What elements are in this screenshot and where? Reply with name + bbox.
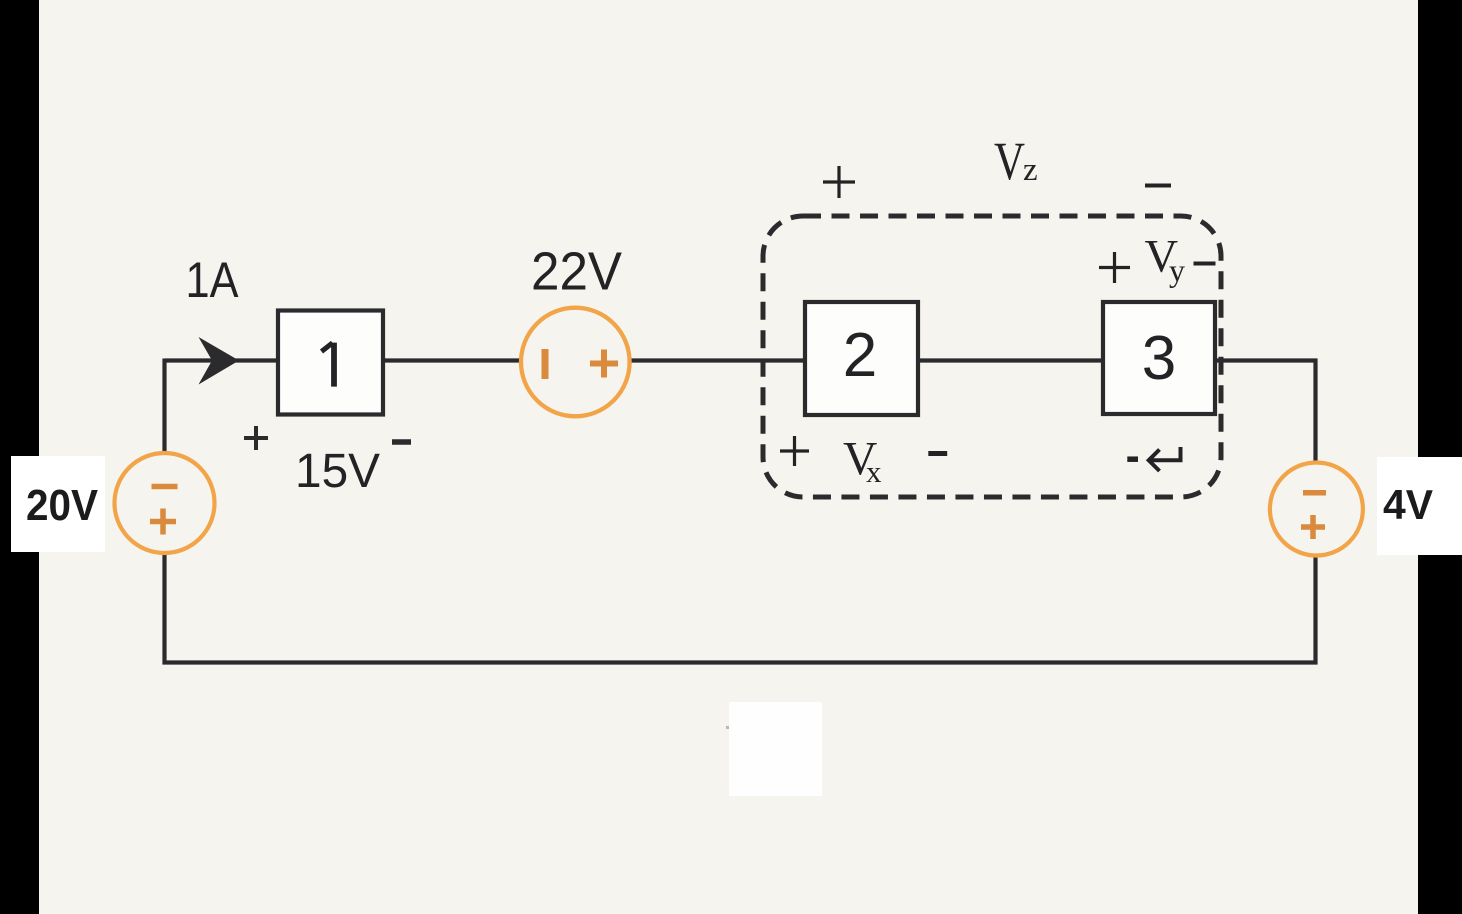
label Vx bbox=[843, 433, 882, 489]
voltage source 4V circle bbox=[1270, 463, 1363, 556]
20V source minus sign bbox=[152, 484, 178, 490]
wire right vertical upper bbox=[1313, 359, 1317, 462]
element box 1 bbox=[278, 311, 383, 415]
voltage source 20V circle bbox=[115, 453, 215, 553]
svg-text:z: z bbox=[1023, 152, 1038, 188]
dashed box Vz outline bbox=[763, 216, 1221, 497]
label Vx plus sign bbox=[780, 436, 809, 466]
wire bottom horizontal bbox=[163, 660, 1318, 664]
svg-text:y: y bbox=[1169, 252, 1185, 288]
label 1 in box bbox=[322, 343, 335, 387]
label minus and return arrow below box 3 bbox=[1127, 447, 1180, 471]
label 15V minus sign bbox=[392, 439, 411, 445]
wire right vertical lower bbox=[1313, 557, 1317, 665]
20V source plus sign bbox=[150, 509, 176, 535]
label Vx minus sign bbox=[928, 451, 947, 456]
svg-text:4V: 4V bbox=[1383, 481, 1433, 528]
wire box1 to 22V source bbox=[383, 358, 521, 362]
wire box2 to box3 bbox=[918, 358, 1103, 362]
voltage source 22V circle bbox=[521, 308, 630, 417]
svg-text:x: x bbox=[866, 454, 882, 489]
svg-text:20V: 20V bbox=[26, 481, 99, 530]
svg-text:V: V bbox=[994, 131, 1025, 191]
white patch bottom center bbox=[729, 702, 822, 796]
label Vy minus sign bbox=[1194, 262, 1216, 266]
label 15V plus sign bbox=[244, 426, 268, 450]
22V source plus sign bbox=[590, 350, 618, 378]
wire left vertical lower bbox=[162, 555, 166, 665]
label Vy bbox=[1145, 232, 1186, 288]
label Vz bbox=[994, 131, 1038, 191]
svg-text:2: 2 bbox=[843, 321, 877, 390]
label Vz minus sign bbox=[1145, 184, 1171, 188]
right pillarbox bar bbox=[1418, 0, 1462, 914]
4V source minus sign bbox=[1303, 490, 1326, 496]
svg-text:22V: 22V bbox=[531, 242, 622, 302]
4V source plus sign bbox=[1301, 515, 1325, 539]
label Vy plus sign bbox=[1099, 252, 1130, 283]
wire 22V source to box2 bbox=[630, 358, 805, 362]
22V source minus bar bbox=[542, 349, 549, 379]
current arrow 1A head bbox=[199, 337, 240, 385]
element box 2 bbox=[805, 302, 918, 415]
wire box3 to top-right corner bbox=[1215, 358, 1318, 362]
20V white label box bbox=[11, 456, 105, 552]
wire left vertical upper bbox=[162, 359, 166, 453]
svg-text:3: 3 bbox=[1142, 324, 1176, 393]
svg-text:1A: 1A bbox=[186, 252, 240, 308]
cursor dot bbox=[726, 726, 729, 729]
wire top-left horizontal bbox=[165, 358, 279, 362]
left pillarbox bar bbox=[0, 0, 39, 914]
svg-text:15V: 15V bbox=[295, 445, 380, 498]
label Vz plus sign bbox=[823, 166, 855, 198]
4V white label box bbox=[1377, 457, 1462, 555]
element box 3 bbox=[1103, 302, 1215, 414]
